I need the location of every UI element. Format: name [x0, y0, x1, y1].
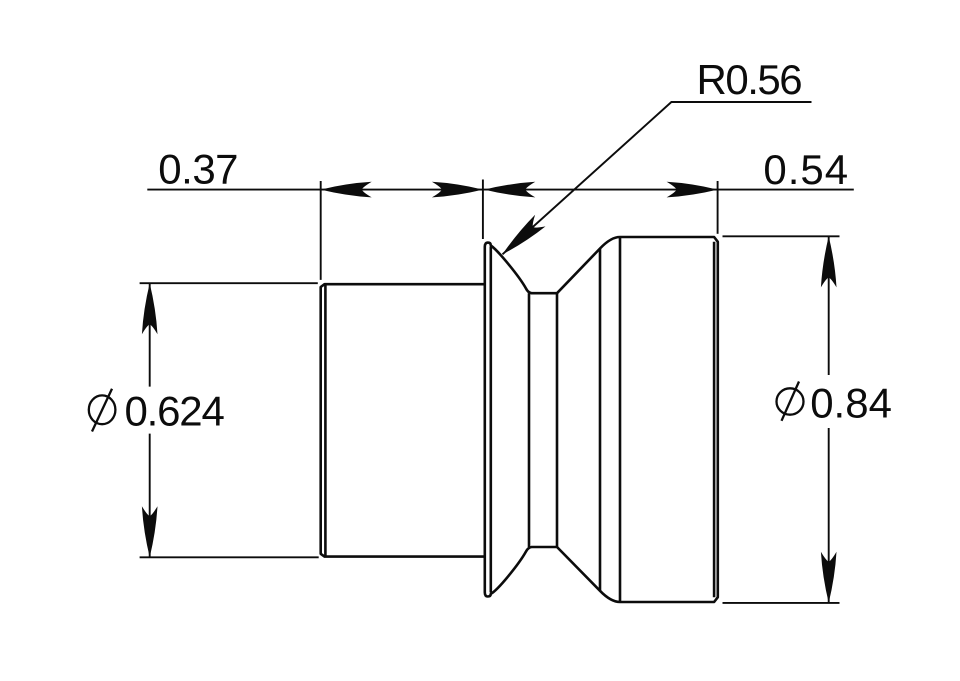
svg-text:R0.56: R0.56 [697, 56, 802, 103]
svg-text:0.624: 0.624 [125, 387, 225, 434]
svg-text:0.37: 0.37 [158, 145, 238, 192]
svg-text:0.84: 0.84 [810, 380, 892, 427]
svg-text:0.54: 0.54 [763, 146, 849, 193]
